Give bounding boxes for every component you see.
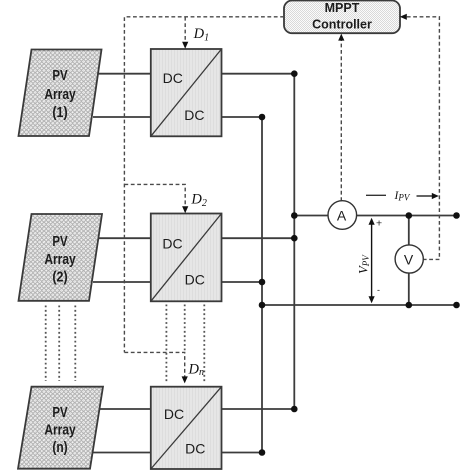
wire dashed D2 branch [124, 184, 185, 206]
node voltmeter feedback arrowhead [400, 14, 407, 20]
wire dashed D1 branch [184, 17, 186, 43]
svg-text:DC: DC [162, 235, 182, 251]
wire voltmeter branch [408, 216, 410, 306]
svg-text:Dn: Dn [188, 361, 204, 377]
wire [222, 237, 295, 239]
wire [222, 116, 263, 118]
node junction [291, 235, 298, 242]
svg-text:Array: Array [44, 422, 76, 439]
wire [222, 73, 295, 75]
voltmeter V [395, 245, 423, 273]
continuation dots PV column [46, 306, 76, 382]
svg-text:DC: DC [163, 70, 183, 86]
svg-text:PV: PV [52, 404, 67, 421]
wire [93, 116, 151, 118]
node junction [259, 114, 266, 121]
svg-text:D2: D2 [190, 191, 206, 209]
wire dashed duty feed from MPPT [124, 17, 284, 353]
wire [222, 408, 295, 410]
svg-text:(n): (n) [52, 439, 67, 456]
node junction [259, 302, 266, 309]
ammeter A [328, 201, 357, 230]
svg-text:MPPT: MPPT [325, 1, 360, 15]
svg-text:DC: DC [164, 406, 184, 422]
wire [93, 281, 151, 283]
svg-text:V: V [404, 251, 414, 267]
node junction [406, 212, 413, 219]
svg-text:Controller: Controller [312, 17, 372, 31]
node junction [259, 449, 266, 456]
wire dashed voltmeter to MPPT [406, 17, 439, 260]
svg-text:(1): (1) [52, 104, 67, 121]
svg-text:(2): (2) [52, 269, 67, 286]
label VPV measurement arrow [356, 218, 382, 304]
node junction [291, 70, 298, 77]
wire [222, 452, 263, 454]
svg-text:A: A [337, 207, 347, 223]
DC-DC converter n [151, 387, 222, 469]
wire [222, 281, 263, 283]
PV array 2 [19, 214, 103, 301]
DC-DC converter 1 [151, 49, 222, 136]
continuation dots converter column [166, 305, 204, 383]
node Dn arrowhead [182, 376, 188, 383]
wire output negative [262, 304, 457, 306]
svg-text:VPV: VPV [356, 254, 371, 274]
svg-text:PV: PV [52, 233, 67, 250]
node terminal negative [453, 302, 460, 309]
wire [93, 408, 151, 410]
PV array n [18, 387, 103, 469]
svg-text:D1: D1 [193, 26, 209, 44]
svg-text:DC: DC [185, 441, 205, 457]
wire output positive [294, 215, 456, 217]
wire [93, 237, 151, 239]
svg-text:-: - [377, 285, 380, 295]
node ammeter feedback arrowhead [338, 34, 344, 41]
node junction [291, 406, 298, 413]
svg-text:PV: PV [52, 67, 67, 84]
MPPT controller U1 [284, 1, 400, 34]
svg-text:DC: DC [184, 107, 204, 123]
node junction [291, 212, 298, 219]
DC-DC converter 2 [151, 214, 222, 302]
wire [93, 73, 151, 75]
node junction [406, 302, 413, 309]
PV array 1 [19, 50, 102, 137]
wire dashed ammeter to MPPT [340, 40, 342, 201]
svg-text:IPV: IPV [394, 190, 411, 202]
node terminal positive [453, 212, 460, 219]
label IPV [366, 190, 439, 202]
svg-text:Array: Array [44, 251, 76, 268]
node D2 arrowhead [182, 206, 188, 213]
node junction [259, 279, 266, 286]
wire [93, 452, 151, 454]
svg-text:DC: DC [185, 271, 205, 287]
svg-text:+: + [376, 218, 382, 230]
svg-text:Array: Array [44, 86, 76, 103]
node D1 arrowhead [182, 42, 188, 49]
wire positive bus [293, 74, 295, 409]
wire negative bus [261, 117, 263, 453]
wire dashed Dn branch [124, 352, 184, 377]
